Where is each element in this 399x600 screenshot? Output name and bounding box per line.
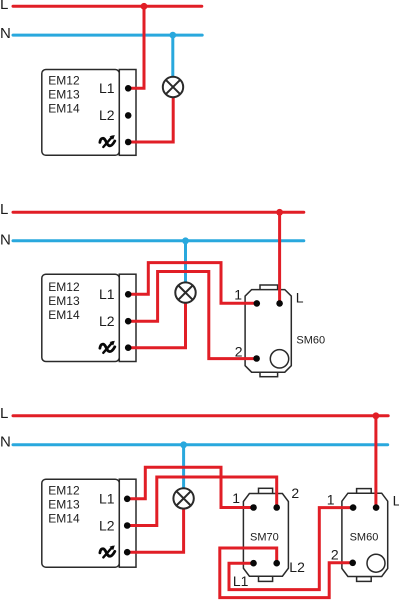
svg-text:SM60: SM60	[296, 334, 325, 346]
svg-text:EM12: EM12	[48, 484, 80, 498]
svg-text:L1: L1	[99, 286, 115, 302]
svg-text:L: L	[296, 290, 304, 306]
svg-text:SM60: SM60	[350, 532, 379, 544]
svg-text:SM70: SM70	[250, 532, 279, 544]
svg-text:L: L	[393, 492, 399, 508]
svg-text:L2: L2	[99, 313, 115, 329]
svg-text:L: L	[0, 0, 8, 13]
svg-text:2: 2	[291, 485, 299, 501]
svg-text:N: N	[0, 232, 11, 249]
svg-text:2: 2	[331, 546, 339, 562]
svg-text:EM14: EM14	[48, 308, 80, 322]
svg-text:EM12: EM12	[48, 74, 80, 88]
svg-text:L1: L1	[99, 80, 115, 96]
svg-text:EM14: EM14	[48, 102, 80, 116]
svg-text:N: N	[0, 434, 11, 451]
svg-text:1: 1	[327, 492, 335, 508]
svg-text:L: L	[0, 201, 8, 218]
svg-text:EM13: EM13	[48, 88, 80, 102]
svg-text:1: 1	[232, 490, 240, 506]
svg-text:L: L	[0, 405, 8, 422]
svg-text:L2: L2	[99, 517, 115, 533]
svg-text:1: 1	[234, 286, 242, 302]
svg-text:EM12: EM12	[48, 280, 80, 294]
svg-text:EM13: EM13	[48, 498, 80, 512]
svg-text:L1: L1	[99, 491, 115, 507]
svg-text:L2: L2	[289, 559, 305, 575]
svg-text:L2: L2	[99, 107, 115, 123]
svg-text:EM13: EM13	[48, 294, 80, 308]
svg-text:EM14: EM14	[48, 512, 80, 526]
svg-text:L1: L1	[233, 573, 249, 589]
svg-text:N: N	[0, 25, 11, 42]
